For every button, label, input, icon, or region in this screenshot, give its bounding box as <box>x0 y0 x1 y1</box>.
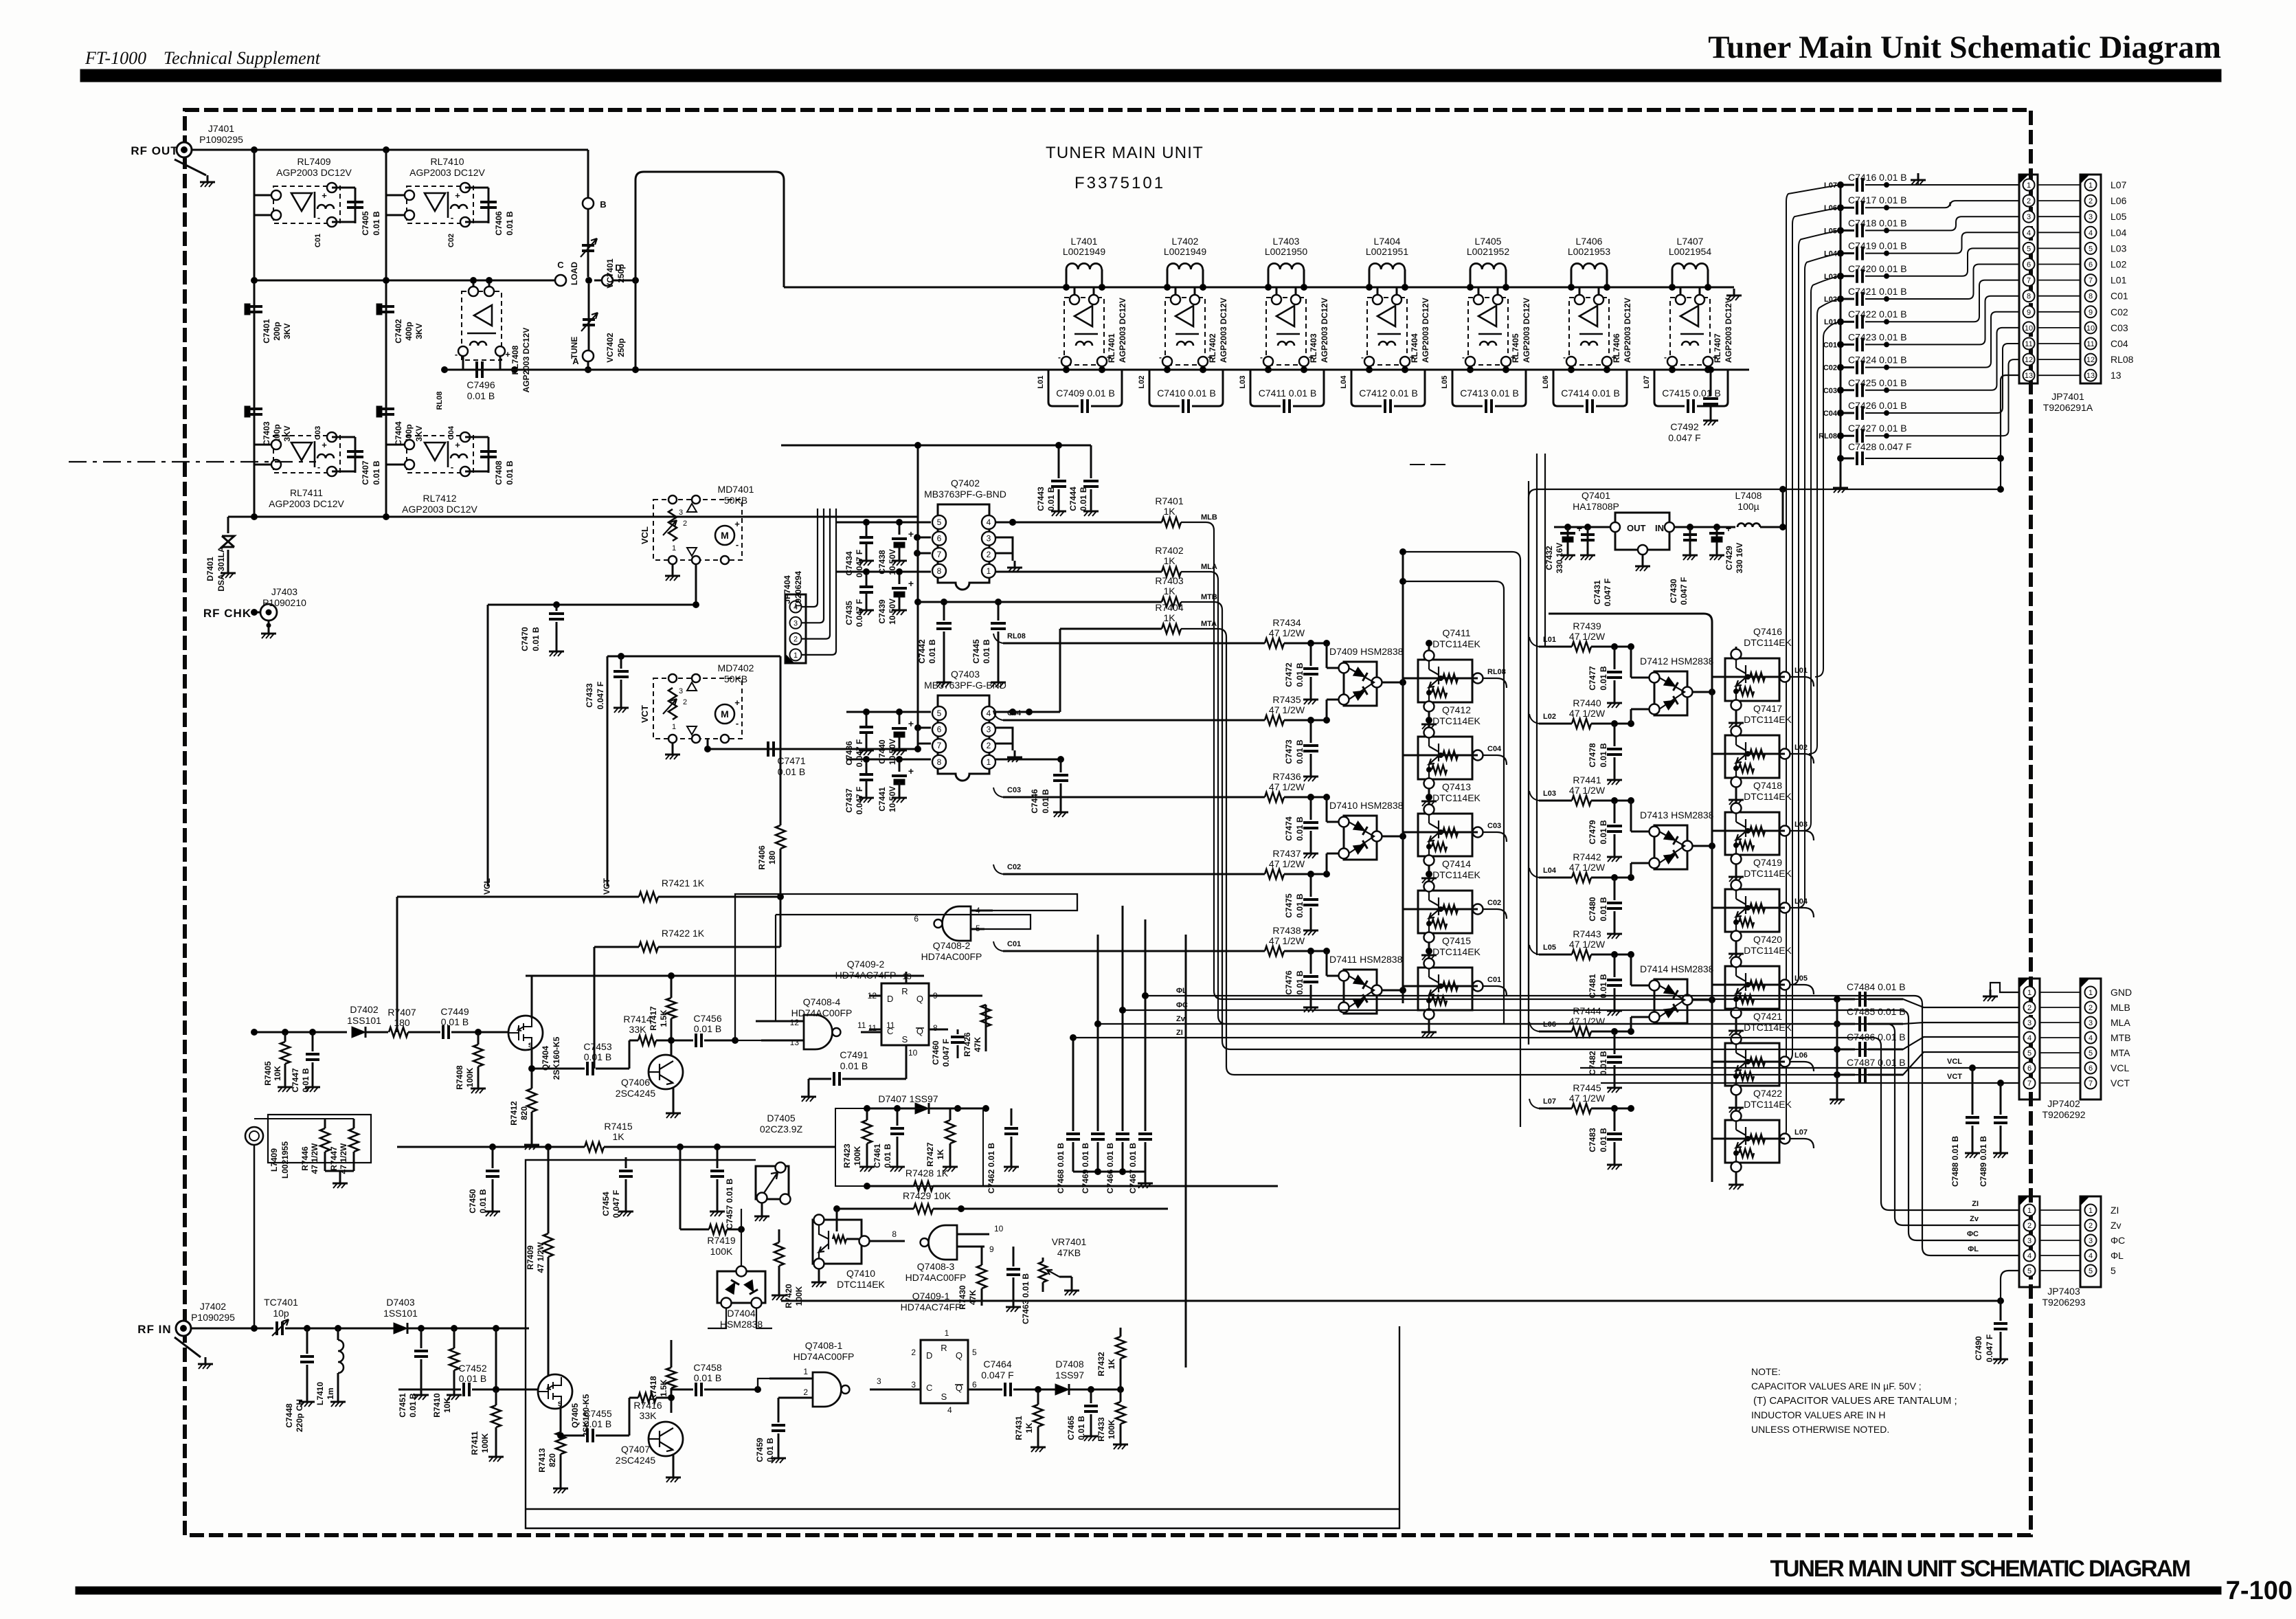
svg-text:R: R <box>901 986 908 996</box>
svg-text:HD74AC74FP: HD74AC74FP <box>901 1302 962 1313</box>
svg-text:L0021953: L0021953 <box>1568 246 1611 257</box>
resistor R7444 47 1/2W net L06 <box>1529 1005 1634 1036</box>
diode block D7404 HSM2838 <box>717 1266 765 1330</box>
svg-text:3: 3 <box>679 687 683 695</box>
svg-text:1.5K: 1.5K <box>659 1379 668 1397</box>
capacitor C7465 <box>1066 1389 1099 1441</box>
svg-text:0.01 B: 0.01 B <box>883 1143 892 1168</box>
capacitor C7439 <box>877 572 914 625</box>
svg-text:C7475: C7475 <box>1284 893 1294 918</box>
resistor R7410 10K <box>432 1328 462 1418</box>
svg-text:1: 1 <box>987 566 991 576</box>
svg-text:L03: L03 <box>1239 376 1247 389</box>
JP7402 pin 7 net VCT <box>2040 1078 2130 1088</box>
svg-text:L04: L04 <box>2111 227 2127 238</box>
svg-text:C7476: C7476 <box>1284 970 1294 995</box>
svg-text:R7420: R7420 <box>784 1284 794 1308</box>
svg-text:0.047 F: 0.047 F <box>855 739 864 768</box>
transistor Q7417 DTC114EK net L02 <box>1712 703 1792 805</box>
regulator Q7401 HA17808P <box>1573 490 1674 555</box>
capacitor C7416 <box>1838 172 2020 192</box>
svg-text:D7405: D7405 <box>767 1113 795 1124</box>
resistor R7442 47 1/2W net L04 <box>1529 851 1634 882</box>
inductor L7408 100u <box>1735 490 1762 527</box>
svg-text:D7414 HSM2838: D7414 HSM2838 <box>1640 963 1714 974</box>
resistor R7418 1.5K <box>649 1340 676 1401</box>
svg-text:+: + <box>908 766 914 777</box>
wires JP7404 to motor drives <box>802 509 836 655</box>
svg-text:2: 2 <box>683 698 687 706</box>
svg-text:ZI: ZI <box>1972 1200 1979 1208</box>
JP7403 pin 3 net ΦC <box>2040 1235 2125 1246</box>
svg-text:11: 11 <box>857 1020 866 1030</box>
diode D7407 1SS97 <box>867 1093 989 1114</box>
svg-text:MTA: MTA <box>1201 620 1217 628</box>
resistor R7437 47 1/2W net C02 <box>993 848 1330 879</box>
net VCL into JP7402 <box>1580 1058 2019 1071</box>
svg-text:C7419 0.01 B: C7419 0.01 B <box>1848 241 1907 252</box>
svg-text:330 16V: 330 16V <box>1735 543 1744 574</box>
svg-text:C01: C01 <box>2111 291 2128 302</box>
wire RF split riser <box>493 1328 499 1393</box>
svg-text:0.047 F: 0.047 F <box>1679 577 1689 605</box>
label JP7403 T9206293 <box>2042 1286 2085 1308</box>
net C02 label <box>1823 364 1837 372</box>
svg-text:3: 3 <box>2027 1237 2031 1245</box>
ground at end of inductor bus <box>1726 289 1742 300</box>
wire left array base rail x2042 <box>1400 552 1406 1003</box>
svg-text:C7404: C7404 <box>394 421 403 446</box>
svg-text:L02: L02 <box>1138 376 1146 389</box>
svg-text:0.01 B: 0.01 B <box>778 766 805 777</box>
svg-text:R7443: R7443 <box>1573 928 1601 939</box>
output C02 from Q7414 <box>1483 899 1507 919</box>
svg-text:C7450: C7450 <box>468 1189 477 1214</box>
resistor R7443 47 1/2W net L05 <box>1529 928 1634 959</box>
wire Q7405 source down <box>560 1406 562 1432</box>
svg-text:6: 6 <box>2027 261 2031 269</box>
relay RL7401 <box>1058 295 1127 366</box>
IC Q7403 MB3763PF-G-BND <box>924 669 1006 781</box>
resistor R7431 1K <box>1014 1389 1046 1452</box>
svg-text:C7496: C7496 <box>466 379 495 390</box>
svg-text:Q7420: Q7420 <box>1753 934 1782 945</box>
svg-text:R7432: R7432 <box>1096 1352 1106 1376</box>
svg-text:MB3763PF-G-BND: MB3763PF-G-BND <box>924 680 1006 691</box>
svg-text:P1090295: P1090295 <box>191 1312 235 1323</box>
capacitor C7442 <box>917 599 952 688</box>
svg-text:0.01 B: 0.01 B <box>1599 743 1608 768</box>
svg-text:L05: L05 <box>1441 376 1449 389</box>
svg-text:10: 10 <box>994 1224 1004 1233</box>
svg-text:8: 8 <box>2027 293 2031 301</box>
capacitor C7420 <box>1838 248 2020 282</box>
svg-text:C04: C04 <box>1007 709 1022 717</box>
svg-text:C7426 0.01 B: C7426 0.01 B <box>1848 400 1907 411</box>
transistor Q7406 2SC4245 <box>616 1055 683 1099</box>
connector J7403 RF CHK <box>251 586 307 621</box>
svg-text:1: 1 <box>2089 989 2093 997</box>
svg-text:C7409 0.01 B: C7409 0.01 B <box>1056 388 1115 399</box>
svg-text:R7412: R7412 <box>509 1101 519 1126</box>
svg-text:C7429: C7429 <box>1724 546 1734 570</box>
output L01 from Q7416 <box>1790 667 1814 686</box>
svg-text:2: 2 <box>2027 1004 2031 1012</box>
net C04 label <box>1823 410 1838 418</box>
svg-text:AGP2003 DC12V: AGP2003 DC12V <box>402 504 477 515</box>
resistor R7415 1K <box>397 1121 835 1152</box>
svg-text:7: 7 <box>2027 277 2031 285</box>
svg-text:L07: L07 <box>1543 1097 1556 1106</box>
svg-text:MLB: MLB <box>2111 1002 2130 1013</box>
IC Q7402 MB3763PF-G-BND <box>924 478 1006 590</box>
svg-text:3: 3 <box>2027 1019 2031 1027</box>
svg-text:1SS101: 1SS101 <box>347 1015 381 1026</box>
capacitor C7410 <box>1149 370 1223 413</box>
svg-text:0.01 B: 0.01 B <box>301 1068 311 1093</box>
svg-text:1K: 1K <box>1107 1359 1116 1370</box>
capacitor C7407 <box>332 437 381 485</box>
transistor Q7415 DTC114EK net C01 <box>1403 935 1483 1037</box>
svg-text:0.01 B: 0.01 B <box>1599 897 1608 922</box>
svg-text:D7402: D7402 <box>350 1004 378 1015</box>
svg-text:C7458: C7458 <box>693 1362 721 1373</box>
diode block D7411 HSM2838 <box>1329 954 1403 1014</box>
wire left array D-block links <box>1327 643 1406 994</box>
svg-text:2: 2 <box>2089 1222 2093 1230</box>
capacitor C7472 <box>1284 643 1318 704</box>
svg-text:R7404: R7404 <box>1155 602 1183 613</box>
svg-text:1: 1 <box>672 544 676 552</box>
svg-text:0.01 B: 0.01 B <box>1599 974 1608 998</box>
svg-text:2: 2 <box>2089 1004 2093 1012</box>
svg-text:R7408: R7408 <box>455 1065 464 1090</box>
svg-text:VCT: VCT <box>640 705 650 723</box>
capacitor C7417 <box>1838 194 2020 214</box>
ground J7403 <box>261 621 276 638</box>
svg-text:R7423: R7423 <box>842 1143 852 1168</box>
svg-text:MLA: MLA <box>2111 1017 2130 1028</box>
svg-text:L01: L01 <box>1794 667 1808 675</box>
connector JP7402 left column <box>2019 979 2040 1099</box>
svg-text:C7437: C7437 <box>844 788 854 813</box>
svg-text:ΦC: ΦC <box>2111 1235 2125 1246</box>
resistor R7436 47 1/2W net C03 <box>993 771 1330 802</box>
node C <box>555 260 566 286</box>
svg-text:0.01 B: 0.01 B <box>1599 820 1608 845</box>
wire RL7409 contacts to rail <box>254 195 271 215</box>
svg-text:12: 12 <box>2086 356 2095 364</box>
svg-text:R7445: R7445 <box>1573 1082 1601 1093</box>
svg-text:6: 6 <box>937 725 942 735</box>
output L05 from Q7420 <box>1790 974 1814 994</box>
svg-text:5: 5 <box>2111 1265 2116 1276</box>
svg-text:Q: Q <box>956 1350 963 1361</box>
svg-text:C7423 0.01 B: C7423 0.01 B <box>1848 331 1907 342</box>
svg-text:47 1/2W: 47 1/2W <box>1269 781 1305 792</box>
svg-text:47 1/2W: 47 1/2W <box>339 1143 348 1174</box>
svg-text:RL7410: RL7410 <box>430 156 464 167</box>
capacitor C7447 <box>291 1032 320 1093</box>
capacitor C7449 <box>440 1006 509 1039</box>
svg-text:L7402: L7402 <box>1172 236 1199 247</box>
wire ZI route to JP7403 <box>1073 1038 2019 1210</box>
svg-text:OUT: OUT <box>1627 523 1646 533</box>
svg-text:3: 3 <box>2089 1237 2093 1245</box>
capacitor C7435 <box>844 572 874 627</box>
svg-text:0.01 B: 0.01 B <box>584 1418 611 1429</box>
capacitor C7427 <box>1838 359 2020 443</box>
svg-text:47 1/2W: 47 1/2W <box>1569 1016 1606 1027</box>
svg-text:10p: 10p <box>273 1308 289 1319</box>
capacitor C7445 <box>971 599 1006 688</box>
svg-text:C03: C03 <box>314 426 322 440</box>
svg-text:R7410: R7410 <box>432 1393 442 1418</box>
inductor L7410 1m <box>315 1328 346 1407</box>
net L01 label <box>1824 318 1837 326</box>
wire riser x1667 up <box>1143 919 1149 999</box>
capacitor C7478 <box>1588 724 1622 785</box>
wire riser x1634 up <box>1120 906 1126 1014</box>
svg-text:Q7417: Q7417 <box>1753 703 1782 714</box>
svg-text:6: 6 <box>2027 1064 2031 1073</box>
svg-text:RL08: RL08 <box>1007 632 1026 640</box>
relay RL7412 <box>402 432 477 515</box>
output C01 from Q7415 <box>1483 976 1507 996</box>
svg-text:1m: 1m <box>326 1387 335 1399</box>
svg-text:DTC114EK: DTC114EK <box>1432 792 1481 803</box>
svg-text:C7480: C7480 <box>1588 897 1597 922</box>
wire relay RL7404 connections <box>1366 287 1408 373</box>
svg-text:JP7402: JP7402 <box>2047 1098 2080 1109</box>
svg-text:0.01 B: 0.01 B <box>467 390 495 401</box>
output L02 from Q7417 <box>1790 744 1814 763</box>
gate Q7408-2 HD74AC00FP <box>914 906 993 962</box>
svg-text:47 1/2W: 47 1/2W <box>1569 862 1606 873</box>
transistor Q7416 DTC114EK net L01 <box>1712 626 1792 728</box>
svg-text:-: - <box>317 462 320 472</box>
wire right array top feed <box>1549 614 1712 622</box>
svg-text:0.01 B: 0.01 B <box>1599 666 1608 691</box>
svg-text:R7434: R7434 <box>1272 617 1301 628</box>
svg-text:0.01 B: 0.01 B <box>1041 789 1050 814</box>
snubber box outline <box>835 1108 983 1186</box>
capacitor C7409 <box>1048 370 1122 413</box>
svg-text:C01: C01 <box>1487 976 1501 984</box>
diode D7403 1SS101 <box>383 1297 529 1334</box>
wire right array base rail x2492 <box>1711 622 1713 1182</box>
relay RL7409 <box>271 156 352 227</box>
svg-text:0.01 B: 0.01 B <box>1046 487 1056 511</box>
capacitor C7480 <box>1588 878 1622 939</box>
svg-text:R7446: R7446 <box>300 1146 310 1171</box>
connector JP7404 <box>783 571 806 663</box>
svg-text:R7428 1K: R7428 1K <box>905 1168 949 1179</box>
diode block D7412 HSM2838 <box>1640 656 1714 715</box>
svg-text:Q7414: Q7414 <box>1442 858 1471 869</box>
svg-text:C7472: C7472 <box>1284 662 1294 687</box>
capacitor C7403 <box>245 406 292 446</box>
svg-text:6: 6 <box>2089 261 2093 269</box>
capacitor C7422 <box>1838 280 2020 329</box>
capacitor C7461 <box>873 1106 905 1172</box>
svg-text:5: 5 <box>2089 1049 2093 1058</box>
relay RL7411 <box>269 432 344 509</box>
svg-text:HD74AC00FP: HD74AC00FP <box>905 1272 967 1283</box>
svg-text:R7441: R7441 <box>1573 774 1601 785</box>
svg-text:L05: L05 <box>1543 944 1556 952</box>
svg-text:B: B <box>600 199 606 210</box>
svg-text:2: 2 <box>2027 1222 2031 1230</box>
wire Q7410 to gate <box>870 1241 905 1242</box>
wire L7408 to +13 rail <box>1760 526 1783 528</box>
node A <box>572 350 594 366</box>
svg-text:M: M <box>721 530 729 541</box>
svg-text:R7413: R7413 <box>537 1448 547 1473</box>
capacitor C7464 <box>968 1359 1055 1396</box>
svg-text:+: + <box>455 190 460 201</box>
inductor L7403 <box>1265 236 1308 291</box>
wire phiL route to JP7403 <box>1145 996 2019 1255</box>
wire RL7411 contacts <box>254 445 271 465</box>
svg-text:1K: 1K <box>1024 1422 1034 1433</box>
svg-text:TUNER MAIN UNIT SCHEMATIC DIAG: TUNER MAIN UNIT SCHEMATIC DIAGRAM <box>1770 1556 2190 1582</box>
svg-text:Q7408-2: Q7408-2 <box>933 940 971 951</box>
svg-text:DSA-301LA: DSA-301LA <box>216 546 226 592</box>
net VCT into JP7402 <box>1601 1073 2019 1086</box>
pin 12 net RL08 <box>2038 354 2134 365</box>
svg-text:L03: L03 <box>1543 790 1556 798</box>
svg-text:VCL: VCL <box>482 878 492 895</box>
gate Q7408-4 HD74AC00FP <box>756 996 895 1049</box>
svg-text:10K: 10K <box>273 1066 282 1081</box>
svg-text:INDUCTOR VALUES ARE IN H: INDUCTOR VALUES ARE IN H <box>1751 1409 1886 1420</box>
output L03 from Q7418 <box>1790 820 1814 840</box>
svg-text:3: 3 <box>911 1380 916 1389</box>
capacitor C7412 <box>1351 370 1425 413</box>
svg-text:Q7416: Q7416 <box>1753 626 1782 637</box>
svg-text:R7414: R7414 <box>623 1014 651 1025</box>
connector J7402 RF IN <box>175 1301 235 1357</box>
svg-text:DTC114EK: DTC114EK <box>1432 946 1481 957</box>
svg-text:GND: GND <box>2111 987 2132 998</box>
net hooks phiL phiC Zv ZI <box>1176 987 1188 1037</box>
svg-text:C7411 0.01 B: C7411 0.01 B <box>1259 388 1317 399</box>
connector JP7403 right column <box>2080 1196 2101 1287</box>
svg-text:R7403: R7403 <box>1155 575 1183 586</box>
svg-text:C7401: C7401 <box>262 319 271 344</box>
svg-text:D7401: D7401 <box>205 557 215 581</box>
relay RL7406 <box>1563 295 1632 366</box>
wire C7452 left <box>0 0 1 1</box>
output L04 from Q7419 <box>1790 897 1814 917</box>
wire regulator input rail <box>1674 524 1735 531</box>
svg-text:100K: 100K <box>853 1146 862 1165</box>
svg-text:LOAD: LOAD <box>570 262 579 285</box>
svg-text:C03: C03 <box>1007 786 1021 794</box>
capacitor C7452 <box>398 1363 539 1396</box>
svg-text:L0021949: L0021949 <box>1063 246 1106 257</box>
svg-text:0.01 B: 0.01 B <box>531 627 541 651</box>
svg-text:R7447: R7447 <box>329 1146 339 1171</box>
svg-text:C7412 0.01 B: C7412 0.01 B <box>1359 388 1418 399</box>
svg-text:T9206292: T9206292 <box>2042 1109 2085 1120</box>
svg-text:13: 13 <box>2111 370 2121 381</box>
capacitor stack rail 2 ground <box>1830 999 1845 1104</box>
svg-text:2: 2 <box>911 1348 916 1357</box>
board outline dashed border <box>185 110 2031 1535</box>
svg-text:RL08: RL08 <box>436 392 444 410</box>
svg-text:C7445: C7445 <box>971 639 981 664</box>
svg-text:5: 5 <box>937 517 942 527</box>
svg-text:C7449: C7449 <box>440 1006 469 1017</box>
svg-text:9: 9 <box>989 1244 994 1254</box>
amplifier enclosure box <box>526 1160 1399 1528</box>
resistor R7435 47 1/2W net C04 <box>993 694 1330 725</box>
resistor R7440 47 1/2W net L02 <box>1529 697 1634 728</box>
svg-text:Q7412: Q7412 <box>1442 704 1471 715</box>
svg-text:L02: L02 <box>2111 259 2127 270</box>
svg-text:Q7404: Q7404 <box>541 1046 550 1071</box>
svg-text:47KB: 47KB <box>1057 1247 1081 1258</box>
svg-text:L04: L04 <box>1340 375 1348 389</box>
relay RL7402 <box>1159 295 1228 366</box>
svg-text:10 50V: 10 50V <box>888 739 897 765</box>
svg-text:13: 13 <box>2025 372 2033 380</box>
svg-text:Tuner Main Unit Schematic: Tuner Main Unit Schematic Diagram <box>1708 30 2221 65</box>
connector JP7403 left column <box>2019 1196 2040 1287</box>
capacitor C7426 <box>1838 344 2020 420</box>
svg-text:C7435: C7435 <box>844 601 854 625</box>
diode D7401 <box>205 517 234 592</box>
svg-text:820: 820 <box>519 1106 529 1120</box>
svg-text:UNLESS OTHERWISE NOTED.: UNLESS OTHERWISE NOTED. <box>1751 1424 1889 1435</box>
capacitor C7438 <box>877 522 914 575</box>
svg-text:D: D <box>887 994 893 1004</box>
wire Q7402 left pins <box>836 520 931 575</box>
svg-text:RL7405: RL7405 <box>1511 333 1520 363</box>
svg-text:C7455: C7455 <box>583 1408 611 1419</box>
svg-text:R: R <box>941 1343 947 1353</box>
relay RL7403 <box>1260 295 1329 366</box>
capacitor C7453 <box>583 1041 629 1075</box>
JP7402 pin 5 net MTA <box>2040 1047 2130 1058</box>
svg-text:C03: C03 <box>1823 387 1837 395</box>
svg-text:TUNER MAIN UNIT: TUNER MAIN UNIT <box>1046 144 1204 162</box>
capacitor C7470 <box>488 564 699 656</box>
svg-text:4: 4 <box>2089 1252 2093 1260</box>
svg-text:Q7408-4: Q7408-4 <box>803 996 841 1007</box>
wire RL7410 contacts to rail <box>386 195 405 215</box>
svg-text:7: 7 <box>937 550 942 559</box>
svg-text:8: 8 <box>937 566 942 576</box>
svg-text:-: - <box>317 212 320 223</box>
wire Q7403 left pins <box>846 709 931 763</box>
svg-text:DTC114EK: DTC114EK <box>837 1279 885 1290</box>
svg-text:JP7403: JP7403 <box>2047 1286 2080 1297</box>
JP7403 pin 4 net ΦL <box>2040 1250 2124 1261</box>
pin 7 net L01 <box>2038 275 2127 286</box>
svg-text:47 1/2W: 47 1/2W <box>310 1143 319 1174</box>
wire Zv route to JP7403 <box>1098 1024 2019 1225</box>
relay RL7410 <box>405 156 486 227</box>
svg-text:9: 9 <box>2027 309 2031 317</box>
svg-text:L05: L05 <box>2111 211 2127 222</box>
resistor R7434 47 1/2W net RL08 <box>993 617 1330 648</box>
svg-text:P1090210: P1090210 <box>262 597 306 608</box>
svg-text:5: 5 <box>2089 245 2093 253</box>
svg-text:RL7411: RL7411 <box>290 487 323 498</box>
